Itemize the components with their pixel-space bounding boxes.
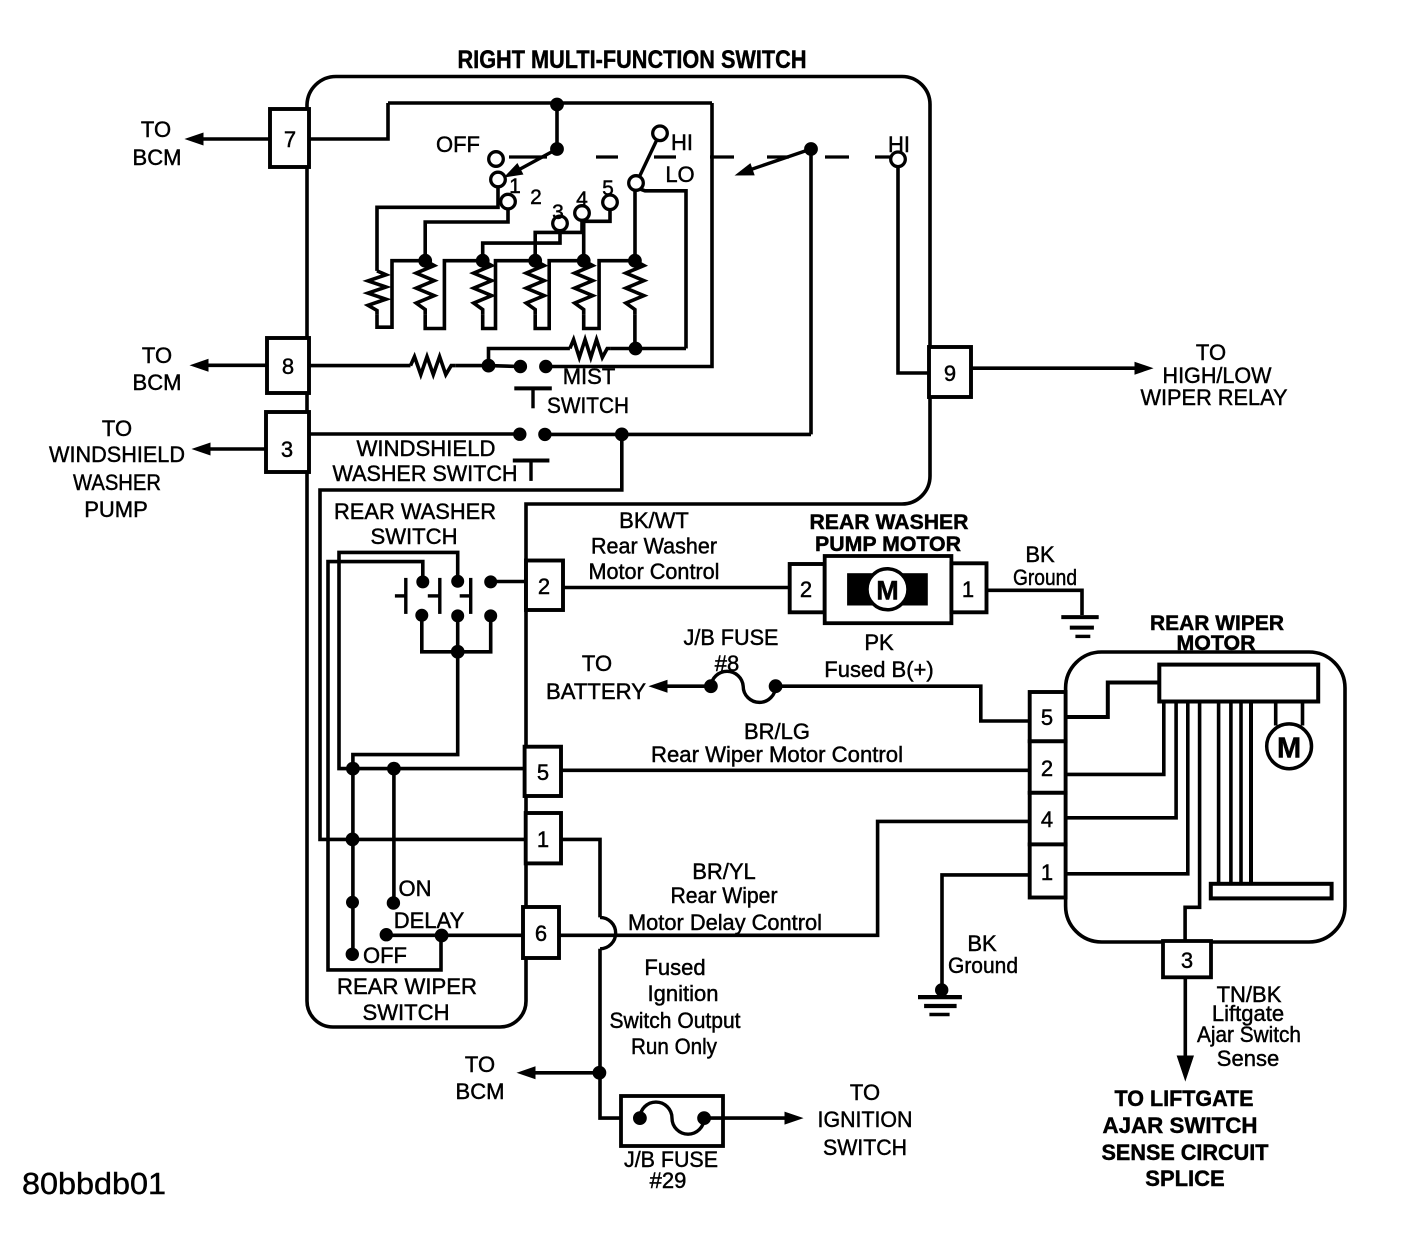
svg-text:WASHER: WASHER bbox=[73, 470, 161, 495]
fuse 8 element bbox=[711, 671, 776, 702]
label Rear Wiper bbox=[671, 883, 778, 908]
arrowhead to liftgate splice bbox=[1177, 1056, 1193, 1080]
svg-text:ON: ON bbox=[399, 876, 432, 901]
rear washer contact top-mid bbox=[452, 575, 464, 587]
label HI (relay contact) bbox=[888, 132, 910, 157]
wire mist contact to inner right edge bbox=[546, 103, 712, 367]
motor M lead 1 bbox=[1274, 702, 1278, 726]
motor connector pin 1 bbox=[1030, 844, 1066, 897]
svg-text:SWITCH: SWITCH bbox=[371, 524, 458, 549]
motor connector pin 2 bbox=[1030, 741, 1066, 793]
contact 2 circle bbox=[501, 194, 516, 209]
arrowhead to ignition switch bbox=[785, 1112, 802, 1124]
svg-text:1: 1 bbox=[537, 827, 549, 852]
connector pin 8 bbox=[267, 338, 309, 393]
label BK/WT bbox=[619, 508, 689, 533]
mechanical linkage dashed line bbox=[509, 155, 897, 158]
svg-text:5: 5 bbox=[602, 177, 614, 200]
svg-text:TO LIFTGATE: TO LIFTGATE bbox=[1115, 1086, 1254, 1111]
wire pin3 to liftgate splice bbox=[1184, 977, 1188, 1058]
connector pin 6 (switch) bbox=[523, 907, 559, 958]
windshield washer contact a bbox=[514, 428, 526, 440]
rear washer switch contact bar 1 bbox=[404, 578, 407, 614]
mist switch contact a bbox=[514, 360, 526, 372]
wire motor internal to pin3 bbox=[1185, 702, 1200, 942]
figure id 80bbdb01 bbox=[22, 1166, 166, 1201]
label 4 bbox=[576, 188, 588, 211]
label MIST bbox=[563, 364, 616, 389]
wire pin8 to arrow TO BCM bbox=[207, 363, 267, 367]
wire R7 to vertical at mist node bbox=[611, 347, 686, 351]
svg-text:Motor Control: Motor Control bbox=[589, 559, 720, 584]
wire motor pin4 internal bbox=[1066, 702, 1177, 818]
svg-text:5: 5 bbox=[537, 760, 549, 785]
arrowhead to BCM (bottom) bbox=[518, 1067, 535, 1079]
label REAR WASHER bbox=[334, 499, 496, 524]
motor wiper contact strip 2 bbox=[1229, 702, 1233, 884]
pump motor armature blocks bbox=[848, 574, 928, 605]
svg-text:RIGHT MULTI-FUNCTION SWITCH: RIGHT MULTI-FUNCTION SWITCH bbox=[458, 46, 807, 74]
svg-text:Fused: Fused bbox=[644, 955, 705, 980]
rear washer switch dash 2 bbox=[428, 594, 439, 597]
windshield washer contact b bbox=[539, 428, 551, 440]
label TO LIFTGATE AJAR SWITCH SENSE CIRCUIT SPLICE bbox=[1102, 1086, 1270, 1191]
label SWITCH (mist) bbox=[547, 393, 629, 418]
svg-text:REAR WASHER: REAR WASHER bbox=[810, 511, 969, 534]
wire fuse29 to ignition switch arrow bbox=[704, 1116, 786, 1120]
svg-text:REAR WIPER: REAR WIPER bbox=[337, 974, 477, 999]
wire contact3 to node d3 bbox=[483, 230, 560, 260]
svg-text:AJAR SWITCH: AJAR SWITCH bbox=[1103, 1113, 1258, 1138]
wire DELAY to pin 6 bbox=[386, 933, 523, 937]
wire contact5 to node d5 bbox=[584, 209, 610, 260]
wiper arm 1 bbox=[519, 149, 557, 170]
node rail crossing pin1 wire bbox=[346, 833, 359, 846]
svg-text:#29: #29 bbox=[650, 1168, 687, 1193]
wire motor pin2 internal bbox=[1066, 702, 1164, 775]
ground node dot bbox=[936, 984, 948, 996]
svg-text:Ground: Ground bbox=[1013, 565, 1077, 590]
rear washer contact top-left bbox=[417, 576, 429, 588]
label WINDSHIELD bbox=[357, 436, 496, 461]
svg-text:BCM: BCM bbox=[456, 1079, 505, 1104]
svg-text:TO: TO bbox=[582, 651, 612, 676]
connector pin 3 bbox=[266, 412, 309, 472]
connector pin 1 (switch) bbox=[526, 813, 561, 863]
svg-text:4: 4 bbox=[576, 188, 588, 211]
pump motor M circle bbox=[867, 569, 908, 610]
rear wiper motor body bbox=[1066, 652, 1345, 942]
svg-text:SPLICE: SPLICE bbox=[1145, 1166, 1224, 1191]
wire washer contact to arm2 wire bbox=[545, 433, 811, 437]
arrowhead to BCM (pin8) bbox=[191, 360, 208, 372]
svg-text:BATTERY: BATTERY bbox=[546, 679, 646, 704]
node d6 bbox=[629, 254, 642, 267]
svg-text:SWITCH: SWITCH bbox=[363, 1000, 450, 1025]
svg-text:PUMP MOTOR: PUMP MOTOR bbox=[815, 533, 961, 556]
label Motor Control bbox=[589, 559, 720, 584]
pump motor body bbox=[825, 556, 952, 623]
svg-text:9: 9 bbox=[944, 361, 956, 386]
label Rear Washer bbox=[591, 534, 717, 559]
svg-text:BCM: BCM bbox=[133, 145, 182, 170]
svg-text:1: 1 bbox=[962, 577, 974, 602]
svg-text:WINDSHIELD: WINDSHIELD bbox=[49, 442, 185, 467]
svg-text:2: 2 bbox=[1041, 756, 1053, 781]
hi-lo switch arm bbox=[639, 140, 657, 178]
wire R2 bottom to node d3 bbox=[425, 261, 483, 329]
title REAR WASHER PUMP MOTOR bbox=[810, 511, 969, 556]
rear washer contact bottom-mid bbox=[452, 610, 464, 622]
svg-text:WINDSHIELD: WINDSHIELD bbox=[357, 436, 496, 461]
node delay junction bbox=[435, 929, 448, 942]
svg-text:BR/LG: BR/LG bbox=[744, 719, 810, 744]
wire contact1 to resistor R1 bbox=[377, 187, 498, 271]
svg-text:BCM: BCM bbox=[133, 370, 182, 395]
label WASHER SWITCH bbox=[333, 461, 518, 486]
motor wiper contact strip 1 bbox=[1217, 702, 1221, 884]
svg-text:Fused B(+): Fused B(+) bbox=[824, 657, 933, 682]
windshield washer T symbol bbox=[513, 461, 550, 481]
label OFF bbox=[436, 132, 480, 157]
motor wiper contact strip 3 bbox=[1239, 702, 1243, 884]
wire LO elbow to mist resistor line bbox=[640, 189, 686, 349]
contact 1 circle bbox=[491, 172, 506, 187]
label DELAY bbox=[394, 908, 465, 933]
resistor R1 bbox=[368, 271, 386, 315]
svg-text:1: 1 bbox=[1041, 860, 1053, 885]
label REAR WIPER bbox=[337, 974, 477, 999]
wire pin3 to arrow bbox=[209, 447, 266, 451]
svg-text:OFF: OFF bbox=[436, 132, 480, 157]
arrowhead to BCM (pin7) bbox=[186, 133, 203, 145]
svg-text:Motor Delay Control: Motor Delay Control bbox=[628, 910, 822, 935]
svg-text:TO: TO bbox=[142, 343, 172, 368]
svg-text:WASHER SWITCH: WASHER SWITCH bbox=[333, 461, 518, 486]
svg-text:M: M bbox=[876, 576, 899, 606]
svg-text:TO: TO bbox=[1196, 340, 1226, 365]
svg-text:6: 6 bbox=[535, 921, 547, 946]
svg-text:4: 4 bbox=[1041, 807, 1053, 832]
wire washer top-mid loop to pin5 rail bbox=[339, 552, 525, 768]
svg-text:PK: PK bbox=[864, 630, 894, 655]
svg-text:IGNITION: IGNITION bbox=[818, 1107, 913, 1132]
node BCM branch bbox=[593, 1066, 606, 1079]
wire common rail down to OFF bbox=[351, 769, 355, 955]
fuse 29 box bbox=[621, 1096, 723, 1146]
wiper arm pivot dot bbox=[551, 143, 564, 156]
label TO BCM (pin 8) bbox=[133, 343, 182, 395]
svg-text:Ignition: Ignition bbox=[648, 981, 719, 1006]
wire R7 left lead bbox=[489, 349, 570, 366]
wire junction to mist contact bbox=[489, 364, 521, 368]
resistor R5 bbox=[575, 261, 593, 315]
contact HI relay circle bbox=[891, 152, 906, 167]
contact 4 circle bbox=[575, 206, 590, 221]
svg-text:SWITCH: SWITCH bbox=[823, 1135, 907, 1160]
wire washer top-left loop to delay node bbox=[328, 562, 441, 970]
wire R1 bottom to node d2 bbox=[377, 261, 425, 328]
wire BR/YL pin6 to motor pin4 bbox=[559, 821, 1030, 935]
svg-text:7: 7 bbox=[284, 127, 296, 152]
contact 5 circle bbox=[603, 195, 618, 210]
contact HI circle bbox=[653, 126, 668, 141]
label SWITCH (rear washer) bbox=[371, 524, 458, 549]
label Rear Wiper Motor Control bbox=[651, 742, 903, 767]
node d2 bbox=[419, 254, 432, 267]
arrowhead to battery bbox=[650, 680, 667, 692]
wire pin8 to R8 bbox=[309, 364, 411, 368]
wiper arm pivot stem bbox=[555, 103, 559, 149]
wire pump pin1 to ground bbox=[987, 590, 1083, 615]
wire washer junction to pin1 of rear switch bbox=[320, 434, 622, 839]
svg-text:2: 2 bbox=[800, 577, 812, 602]
node d5 bbox=[577, 254, 590, 267]
wiper arm 2 pivot dot bbox=[805, 143, 818, 156]
rear washer switch contact bar 2 bbox=[438, 578, 441, 614]
wire fuse8 to battery arrow bbox=[666, 684, 711, 688]
label PK bbox=[864, 630, 894, 655]
label 2 bbox=[530, 186, 542, 209]
svg-text:SWITCH: SWITCH bbox=[547, 393, 629, 418]
rear washer contact bottom-right bbox=[485, 610, 497, 622]
wire R8 to junction bbox=[455, 364, 488, 368]
connector pin 9 bbox=[929, 347, 971, 397]
label TO WINDSHIELD WASHER PUMP bbox=[49, 416, 185, 522]
rear washer contact top-right bbox=[485, 576, 497, 588]
right multi-function switch enclosure and rear washer/wiper switch enclosure outline bbox=[307, 76, 930, 1027]
svg-text:2: 2 bbox=[530, 186, 542, 209]
svg-text:REAR WASHER: REAR WASHER bbox=[334, 499, 496, 524]
svg-text:TO: TO bbox=[850, 1080, 880, 1105]
wire HI contact to pin 9 bbox=[898, 166, 929, 373]
wiper arm 1 arrowhead bbox=[505, 164, 523, 177]
wiper arm 2 arrowhead bbox=[736, 164, 754, 175]
wire motor pin1 internal bbox=[1066, 702, 1188, 874]
svg-text:J/B FUSE: J/B FUSE bbox=[684, 625, 779, 650]
connector pin 7 bbox=[270, 109, 309, 167]
wire washer common down to pin5 rail bbox=[353, 652, 458, 769]
label J/B FUSE #8 bbox=[684, 625, 779, 676]
svg-text:HI: HI bbox=[671, 130, 693, 155]
contact OFF circle bbox=[489, 152, 504, 167]
svg-text:TO: TO bbox=[141, 117, 171, 142]
label TO BCM (bottom) bbox=[456, 1052, 505, 1104]
resistor R6 bbox=[626, 261, 644, 315]
resistor R2 bbox=[416, 261, 434, 315]
svg-text:Run Only: Run Only bbox=[631, 1034, 717, 1059]
rear washer contact bottom-left bbox=[416, 609, 428, 621]
rear washer switch dash 3 bbox=[460, 594, 470, 597]
motor connector pin 4 bbox=[1030, 793, 1066, 845]
wire washer top-right contact to pin 2 bbox=[491, 580, 526, 584]
wire arm2 pivot down to washer switch row bbox=[809, 149, 813, 434]
wire R3 bottom to node d4 bbox=[483, 261, 536, 329]
wire R4 bottom to node d5 bbox=[535, 261, 584, 329]
motor park plate bbox=[1211, 884, 1332, 899]
svg-text:8: 8 bbox=[282, 354, 294, 379]
wire motor pin5 internal bbox=[1066, 683, 1160, 718]
wire pin3 to washer contact bbox=[309, 432, 520, 436]
resistor R3 bbox=[474, 261, 492, 315]
arrowhead to windshield washer pump bbox=[193, 443, 210, 455]
svg-text:Rear Wiper Motor Control: Rear Wiper Motor Control bbox=[651, 742, 903, 767]
label J/B FUSE #29 bbox=[624, 1147, 718, 1193]
label Motor Delay Control bbox=[628, 910, 822, 935]
title RIGHT MULTI-FUNCTION SWITCH bbox=[458, 46, 807, 74]
mist switch T symbol bbox=[514, 388, 552, 408]
resistor R4 bbox=[526, 261, 544, 315]
svg-text:MIST: MIST bbox=[563, 364, 616, 389]
svg-text:PUMP: PUMP bbox=[84, 497, 148, 522]
node d3 bbox=[476, 254, 489, 267]
svg-text:SENSE CIRCUIT: SENSE CIRCUIT bbox=[1102, 1140, 1270, 1165]
svg-text:BR/YL: BR/YL bbox=[692, 859, 756, 884]
node pin5 rail mid bbox=[388, 762, 401, 775]
ground symbol (motor) bbox=[918, 997, 962, 1014]
svg-text:OFF: OFF bbox=[363, 943, 407, 968]
motor wiper contact strip 4 bbox=[1249, 702, 1253, 884]
node pin5 rail left bbox=[347, 762, 360, 775]
svg-text:Switch Output: Switch Output bbox=[610, 1008, 741, 1033]
connector pin 2 (switch) bbox=[526, 561, 563, 611]
label 5 bbox=[602, 177, 614, 200]
label 1 bbox=[509, 175, 521, 198]
motor M lead 2 bbox=[1301, 702, 1305, 726]
contact ON bbox=[387, 897, 399, 909]
rear washer switch contact bar 3 bbox=[469, 578, 472, 614]
rear wiper pole contact bbox=[347, 896, 359, 908]
fuse 29 terminal left bbox=[634, 1112, 647, 1125]
label ON bbox=[399, 876, 432, 901]
wire contact LO to node d6 bbox=[633, 190, 637, 261]
wire BK/WT pin2 to pump motor bbox=[563, 586, 790, 590]
node d4 bbox=[529, 254, 542, 267]
label BK Ground (motor) bbox=[948, 931, 1018, 978]
motor connector pin 3 bbox=[1163, 941, 1211, 977]
label TO BATTERY bbox=[546, 651, 646, 704]
resistor R8 (speed) bbox=[411, 357, 456, 375]
mist switch contact b bbox=[540, 360, 552, 372]
wire R5 bottom to node d6 bbox=[584, 261, 635, 329]
label TO HIGH/LOW WIPER RELAY bbox=[1141, 340, 1288, 410]
junction on top bus bbox=[551, 98, 564, 111]
node washer junction bbox=[615, 428, 628, 441]
connector pin 5 (switch) bbox=[525, 747, 561, 796]
resistor R7 (mist) bbox=[570, 340, 611, 358]
wire pin7 to arrow TO BCM bbox=[202, 137, 270, 141]
node mist resistor junction bbox=[629, 342, 642, 355]
svg-text:M: M bbox=[1277, 733, 1301, 765]
label HI (switch) bbox=[671, 130, 693, 155]
label TO BCM (pin 7) bbox=[133, 117, 182, 170]
label Fused Ignition Switch Output Run Only bbox=[610, 955, 741, 1059]
label Fused B(+) bbox=[824, 657, 933, 682]
label BR/YL bbox=[692, 859, 756, 884]
node washer common junction bbox=[451, 645, 464, 658]
pump motor pin 2 bbox=[790, 564, 825, 612]
wire BR/LG pin5 to motor pin2 bbox=[561, 768, 1030, 772]
wire R6 bottom to mist node bbox=[633, 314, 637, 348]
label 3 bbox=[552, 201, 564, 224]
top bus wire bbox=[388, 101, 712, 105]
motor internal bus bar bbox=[1159, 665, 1318, 702]
fuse 29 terminal right bbox=[698, 1112, 711, 1125]
svg-text:BK/WT: BK/WT bbox=[619, 508, 689, 533]
rear washer switch dash 1 bbox=[395, 594, 405, 597]
wire ON contact drop bbox=[392, 769, 396, 903]
svg-text:2: 2 bbox=[538, 574, 550, 599]
wire pin1 down to fuse29 bbox=[561, 839, 640, 1118]
fuse 8 terminal left bbox=[705, 680, 718, 693]
wire pin7 to top bus bbox=[309, 103, 388, 139]
svg-text:80bbdb01: 80bbdb01 bbox=[22, 1166, 166, 1201]
svg-text:TO: TO bbox=[102, 416, 132, 441]
svg-text:Rear Washer: Rear Washer bbox=[591, 534, 717, 559]
svg-text:Rear Wiper: Rear Wiper bbox=[671, 883, 778, 908]
svg-text:3: 3 bbox=[552, 201, 564, 224]
title REAR WIPER MOTOR bbox=[1150, 612, 1284, 655]
ground symbol (pump) bbox=[1061, 617, 1098, 636]
wire contact4 to node d4 bbox=[535, 220, 582, 261]
svg-text:WIPER RELAY: WIPER RELAY bbox=[1141, 385, 1288, 410]
wire PK fused B+ to motor pin5 bbox=[776, 686, 1030, 721]
svg-text:DELAY: DELAY bbox=[394, 908, 465, 933]
contact OFF (rear wiper) bbox=[346, 948, 358, 960]
fuse 29 element bbox=[640, 1102, 704, 1134]
label LO bbox=[665, 162, 694, 187]
node R8/R7 junction bbox=[482, 359, 495, 372]
svg-text:Sense: Sense bbox=[1217, 1046, 1279, 1071]
label BR/LG bbox=[744, 719, 810, 744]
svg-text:BK: BK bbox=[1025, 542, 1055, 567]
svg-text:5: 5 bbox=[1041, 705, 1053, 730]
label OFF bbox=[363, 943, 407, 968]
wire to BCM arrow (bottom) bbox=[534, 1071, 599, 1075]
label SWITCH (rear wiper) bbox=[363, 1000, 450, 1025]
wire motor pin1 to ground bbox=[942, 875, 1030, 990]
label TO IGNITION SWITCH bbox=[818, 1080, 913, 1160]
svg-text:Ground: Ground bbox=[948, 953, 1018, 978]
motor connector pin 5 bbox=[1030, 692, 1066, 741]
svg-text:3: 3 bbox=[1181, 948, 1193, 973]
pump motor pin 1 bbox=[951, 563, 986, 612]
contact LO circle bbox=[629, 176, 644, 191]
svg-text:TO: TO bbox=[465, 1052, 495, 1077]
fuse 8 terminal right bbox=[769, 680, 782, 693]
wire contact2 to node d2 bbox=[425, 209, 508, 261]
contact 3 circle bbox=[553, 216, 568, 231]
wire washer bottoms to common bbox=[422, 615, 491, 652]
svg-text:LO: LO bbox=[665, 162, 694, 187]
motor M circle bbox=[1267, 724, 1312, 769]
label TN/BK Liftgate Ajar Switch Sense bbox=[1197, 982, 1301, 1071]
contact DELAY bbox=[380, 929, 392, 941]
arrowhead to high/low wiper relay bbox=[1135, 362, 1152, 374]
wire pin9 to arrow bbox=[971, 366, 1136, 370]
label BK Ground (pump) bbox=[1013, 542, 1077, 590]
svg-text:3: 3 bbox=[281, 437, 293, 462]
wiper arm 2 bbox=[748, 149, 811, 171]
svg-text:Ajar Switch: Ajar Switch bbox=[1197, 1022, 1301, 1047]
